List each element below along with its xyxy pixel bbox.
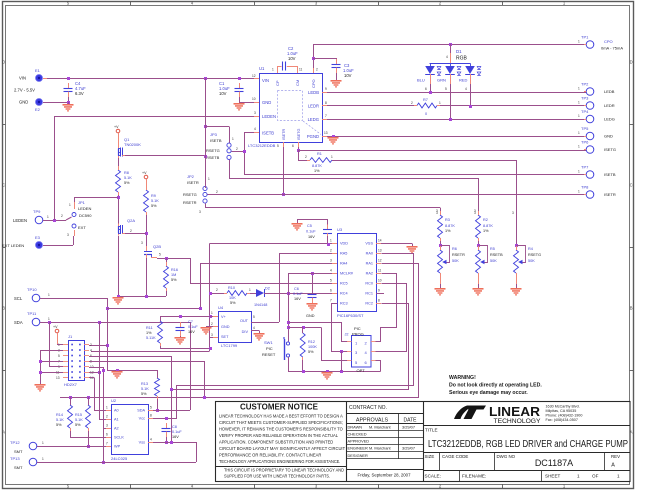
wire: [74, 197, 76, 202]
pin stub U1 LEDEN: [254, 116, 259, 118]
svg-text:4: 4: [465, 87, 467, 91]
svg-text:1: 1: [330, 239, 332, 243]
svg-text:R1: R1: [317, 152, 322, 156]
svg-text:SIZE: SIZE: [425, 454, 435, 459]
svg-text:1: 1: [578, 190, 580, 194]
pin stub U1 GND: [254, 102, 259, 104]
svg-text:RSETG: RSETG: [528, 253, 541, 257]
wire C3 to gnd: [336, 73, 338, 80]
junction pot R5: [477, 244, 480, 247]
svg-text:CHECKED: CHECKED: [348, 432, 367, 437]
svg-text:2: 2: [211, 322, 213, 326]
svg-text:2.7V - 5.5V: 2.7V - 5.5V: [14, 88, 35, 93]
svg-text:C: C: [2, 183, 5, 188]
svg-text:LEDEN: LEDEN: [13, 218, 27, 223]
wire R15 bottom: [88, 431, 90, 446]
pot wiper R6: [441, 246, 450, 263]
svg-text:RC2: RC2: [365, 302, 373, 306]
svg-text:+V: +V: [53, 325, 58, 329]
svg-text:TN0200K: TN0200K: [124, 142, 141, 147]
svg-text:5: 5: [445, 87, 447, 91]
ground at Q2A: [113, 297, 124, 305]
svg-text:1: 1: [577, 474, 580, 479]
junction wrap: [170, 388, 173, 391]
svg-text:1: 1: [42, 441, 44, 445]
svg-text:4: 4: [253, 326, 255, 330]
svg-text:5.11K: 5.11K: [146, 336, 156, 340]
svg-text:6: 6: [425, 87, 427, 91]
svg-text:SCLK: SCLK: [114, 436, 124, 440]
junction: [340, 370, 343, 373]
svg-text:SMT: SMT: [14, 465, 23, 470]
svg-text:RA1: RA1: [366, 262, 373, 266]
wire U4 GND: [206, 326, 213, 328]
svg-text:EXT: EXT: [78, 225, 86, 230]
svg-text:DIV: DIV: [242, 330, 249, 334]
test point TP5: [586, 132, 594, 140]
wire: [70, 397, 72, 405]
wire JP3 RSETB down: [229, 160, 231, 178]
wire down to R2: [478, 178, 480, 215]
wire J1 pin10 row: [89, 367, 103, 369]
wire Q1 gate to rail: [125, 155, 205, 157]
svg-text:3: 3: [254, 111, 256, 115]
svg-text:EXT LEDEN: EXT LEDEN: [2, 243, 24, 248]
svg-text:CM: CM: [295, 80, 300, 86]
svg-text:Fax: (408)434-0507: Fax: (408)434-0507: [546, 418, 578, 422]
ground at R5: [473, 288, 484, 296]
resistor R13: [155, 378, 160, 396]
wire Q1 source to R8: [118, 158, 120, 170]
wire ISETR net to TP8: [208, 194, 587, 196]
svg-text:4: 4: [330, 269, 332, 273]
svg-text:CAGE CODE: CAGE CODE: [442, 454, 468, 459]
wire JP3 pin1 down: [229, 127, 231, 144]
wire down to RC5 row: [190, 258, 192, 283]
svg-text:12: 12: [378, 259, 382, 263]
wire to SDA: [49, 322, 51, 367]
wire J1 pin8 row: [89, 361, 204, 363]
wire rail to J1 pin4: [91, 351, 210, 353]
svg-text:LEDR: LEDR: [308, 104, 319, 109]
svg-text:WP: WP: [114, 445, 121, 449]
wire VIN from E1: [43, 78, 68, 80]
JP1 pin3 stub: [74, 230, 76, 236]
svg-text:VERIFY PROPER AND RELIABLE OPE: VERIFY PROPER AND RELIABLE OPERATION IN …: [219, 433, 338, 439]
wire: [516, 241, 518, 250]
svg-text:2: 2: [316, 68, 318, 72]
test point TP9: [35, 216, 43, 224]
pin stub U4 SET: [213, 337, 218, 339]
junction VIN/C1: [238, 77, 241, 80]
svg-text:CPO: CPO: [604, 39, 613, 44]
junction C3: [312, 57, 315, 60]
wire pot lead: [478, 276, 480, 284]
svg-text:1: 1: [331, 155, 333, 159]
pot wiper R4: [517, 246, 526, 263]
svg-text:RESET: RESET: [262, 352, 276, 357]
svg-text:E1: E1: [35, 68, 41, 73]
svg-text:SCALE:: SCALE:: [425, 474, 441, 479]
wire pullup row: [60, 397, 204, 399]
wire to ground: [40, 350, 42, 384]
svg-text:ISETG: ISETG: [297, 129, 301, 140]
svg-text:ISETB: ISETB: [604, 172, 616, 177]
svg-text:5.1K: 5.1K: [124, 176, 132, 180]
wire: [88, 397, 90, 405]
D1 esd protection glyph: [477, 67, 481, 70]
junction R14: [69, 396, 72, 399]
junction RA4/SCL row: [199, 307, 202, 310]
junction PGND ground: [332, 135, 335, 138]
wire J1 pin6 row: [89, 356, 171, 358]
wire rail to R10: [210, 293, 225, 295]
svg-text:1: 1: [578, 101, 580, 105]
svg-text:1N4148: 1N4148: [254, 303, 267, 307]
svg-text:5: 5: [150, 406, 152, 410]
svg-text:6: 6: [292, 144, 294, 148]
svg-text:B: B: [630, 306, 633, 311]
potentiometer R6: [438, 250, 443, 273]
wire R11 top: [160, 316, 162, 321]
wire JP2 RSETR down: [205, 204, 207, 208]
svg-text:OPT: OPT: [357, 368, 366, 373]
junction SW1: [287, 326, 290, 329]
wire Q2A source down: [118, 236, 120, 296]
svg-text:APPROVED: APPROVED: [348, 439, 370, 444]
svg-text:GND: GND: [221, 325, 230, 329]
svg-text:R12: R12: [308, 340, 315, 344]
svg-text:R9: R9: [151, 194, 156, 198]
svg-text:U4: U4: [218, 305, 224, 310]
svg-text:JP3: JP3: [210, 132, 218, 137]
wire vertical to R14 row: [204, 361, 206, 397]
capacitor C5: [327, 225, 329, 230]
svg-text:LEDB: LEDB: [308, 90, 319, 95]
svg-text:1: 1: [48, 293, 50, 297]
test point TP4: [586, 115, 594, 123]
wire RA4 row: [200, 263, 332, 265]
ground at C7: [175, 337, 186, 345]
wire: [57, 344, 63, 346]
wire: [259, 331, 261, 334]
svg-text:RC4: RC4: [340, 292, 348, 296]
svg-text:1: 1: [232, 137, 234, 141]
svg-text:ISETG: ISETG: [604, 147, 616, 152]
wire R16 top: [166, 258, 168, 266]
svg-text:5.1K: 5.1K: [75, 418, 83, 422]
svg-text:10: 10: [252, 97, 256, 101]
resistor R10: [227, 291, 247, 296]
wire A1: [99, 419, 106, 421]
pin stub U1 VIN: [254, 78, 259, 80]
junction R15/WP: [87, 445, 90, 448]
svg-text:R11: R11: [146, 326, 153, 330]
svg-text:OUT: OUT: [240, 319, 249, 323]
wire ISETB to U1: [244, 132, 259, 134]
svg-text:50K: 50K: [452, 259, 459, 263]
wire LEDEN vertical: [54, 116, 56, 220]
capacitor C2: [282, 62, 284, 71]
wire R14 bottom: [70, 431, 72, 437]
svg-text:RA2: RA2: [366, 272, 373, 276]
wire MCLR vertical: [288, 273, 290, 342]
svg-text:SW1: SW1: [264, 340, 273, 345]
wire to TP13 row: [196, 442, 198, 462]
svg-text:SDA: SDA: [14, 320, 23, 325]
wire RA0 wrap to Vcc: [154, 254, 414, 419]
wire C3 branch: [313, 58, 336, 60]
svg-text:0mA - 75mA: 0mA - 75mA: [601, 46, 623, 51]
pin stub TP2: [584, 91, 586, 93]
resistor R16: [164, 266, 169, 288]
svg-text:1%: 1%: [146, 331, 152, 335]
junction TP13 row: [102, 461, 105, 464]
ground at C1: [234, 103, 245, 111]
ground at SW row: [322, 372, 333, 380]
svg-text:CUSTOMER NOTICE: CUSTOMER NOTICE: [240, 403, 318, 412]
wire RC0 to J2 pin4: [376, 284, 407, 352]
transistor Q1 TN0200K: [118, 146, 120, 149]
svg-text:RC3: RC3: [340, 302, 348, 306]
resistor R1: [310, 158, 332, 163]
pin stub TP8: [584, 194, 586, 196]
wire VDD row: [210, 243, 333, 245]
svg-text:1: 1: [578, 40, 580, 44]
svg-text:TP5: TP5: [581, 126, 589, 131]
svg-text:2: 2: [216, 288, 218, 292]
wire to A2 and TP13 row: [103, 367, 105, 462]
pin stub TP6: [584, 149, 586, 151]
connector J1 HD2X7 box: [69, 341, 85, 381]
+V at R9: [144, 175, 148, 179]
test point TP8: [586, 191, 594, 199]
svg-text:4: 4: [254, 127, 256, 131]
junction: [302, 370, 305, 373]
svg-text:9: 9: [378, 289, 380, 293]
eeprom U2 24LC025 box: [112, 405, 149, 455]
svg-text:6: 6: [330, 289, 332, 293]
svg-text:1: 1: [578, 87, 580, 91]
wire to A0: [94, 378, 96, 411]
wire +V to J1 pin1: [57, 333, 59, 345]
wire CPO up: [313, 44, 315, 73]
svg-text:5%: 5%: [141, 392, 147, 396]
wire ISETG down: [298, 142, 300, 150]
test point TP12: [29, 442, 37, 450]
junction R15: [87, 396, 90, 399]
turret E2 (GND): [36, 99, 43, 106]
svg-text:1M: 1M: [171, 273, 176, 277]
junction SCL row: [106, 307, 109, 310]
junction R13/SDA: [156, 409, 159, 412]
svg-text:PERFORMANCE OR RELIABILITY. C: PERFORMANCE OR RELIABILITY. CONTACT LINE…: [219, 453, 322, 459]
wire J1 pin2 row: [89, 345, 107, 347]
test point TP2: [586, 88, 594, 96]
junction SDA/J1: [48, 321, 51, 324]
svg-text:SUPPLIED FOR USE WITH LINEAR T: SUPPLIED FOR USE WITH LINEAR TECHNOLOGY …: [224, 474, 330, 480]
svg-text:0.1uF: 0.1uF: [306, 230, 316, 234]
svg-text:Q2B: Q2B: [153, 244, 161, 249]
svg-text:TP13: TP13: [10, 456, 20, 461]
svg-text:TITLE: TITLE: [425, 428, 438, 433]
scale row: [423, 470, 630, 472]
wire LEDR net left: [322, 105, 414, 107]
transistor Q2A: [118, 224, 120, 227]
svg-text:13: 13: [378, 249, 382, 253]
pot wiper R5: [479, 246, 488, 263]
wire +V to Q1 drain: [118, 133, 120, 146]
svg-text:3: 3: [106, 424, 108, 428]
wire: [277, 66, 282, 68]
pin stub TP5: [584, 136, 586, 138]
svg-text:1: 1: [272, 68, 274, 72]
svg-text:Do not look directly at operat: Do not look directly at operating LED.: [449, 383, 542, 389]
pin stub TP9: [43, 220, 48, 222]
svg-text:RC1: RC1: [365, 292, 373, 296]
svg-text:10: 10: [378, 279, 382, 283]
wire: [287, 66, 297, 68]
wire CP up: [277, 66, 279, 73]
wire: [327, 236, 329, 244]
junction C5: [327, 243, 330, 246]
wire PGND net to TP5: [322, 136, 586, 138]
wire BLU cathode to LEDB: [430, 84, 432, 92]
svg-text:1: 1: [578, 145, 580, 149]
wire A2: [103, 428, 106, 430]
svg-text:3: 3: [474, 211, 476, 215]
svg-text:E2: E2: [35, 107, 41, 112]
svg-text:ISETR: ISETR: [187, 180, 199, 185]
U1 pin stubs: [254, 78, 259, 80]
svg-text:3: 3: [330, 259, 332, 263]
svg-text:TP4: TP4: [581, 109, 589, 114]
svg-text:5: 5: [159, 253, 161, 257]
wire: [73, 236, 75, 245]
svg-text:GND: GND: [262, 100, 271, 105]
svg-text:CONTRACT NO.: CONTRACT NO.: [349, 405, 387, 411]
wire RC2 wrap: [172, 304, 409, 390]
svg-text:7: 7: [106, 442, 108, 446]
wire: [440, 241, 442, 250]
svg-text:LEDEN: LEDEN: [78, 206, 91, 211]
wire: [336, 58, 338, 62]
wire R9 down: [146, 215, 148, 248]
wire to A1: [99, 322, 101, 419]
svg-text:5%: 5%: [124, 181, 130, 185]
svg-text:DRAWN: DRAWN: [348, 425, 363, 430]
svg-text:8.87K: 8.87K: [312, 164, 322, 168]
svg-text:3: 3: [211, 333, 213, 337]
ground at J1: [35, 384, 46, 392]
svg-text:LEDB: LEDB: [604, 89, 615, 94]
svg-text:3: 3: [436, 211, 438, 215]
junction VIN rail / +V rail: [204, 77, 207, 80]
svg-text:R3: R3: [445, 218, 450, 222]
svg-text:CIRCUIT BOARD LAYOUT MAY SIGNI: CIRCUIT BOARD LAYOUT MAY SIGNIFICANTLY A…: [219, 446, 345, 452]
svg-text:Q2A: Q2A: [127, 218, 135, 223]
wire J1 pin3 row: [40, 350, 63, 352]
oscillator U4 LTC1799 box: [219, 312, 252, 343]
wire Q2B drain to RC5: [157, 258, 190, 260]
wire SCL row: [107, 308, 200, 310]
svg-text:16V: 16V: [188, 330, 195, 334]
svg-text:Vss: Vss: [139, 441, 145, 445]
svg-text:LINEAR: LINEAR: [489, 405, 540, 419]
junction wrap/Vss: [170, 441, 173, 444]
svg-text:2: 2: [216, 190, 218, 194]
svg-text:E3: E3: [35, 235, 41, 240]
wire SDA row: [153, 410, 190, 412]
resistor R12: [300, 333, 305, 357]
svg-text:GND: GND: [19, 100, 28, 105]
svg-text:8.87K: 8.87K: [445, 224, 455, 228]
svg-text:LEDG: LEDG: [604, 117, 615, 122]
wire A0: [94, 410, 106, 412]
junction pot R6: [439, 244, 442, 247]
wire vertical to Vss: [171, 356, 173, 442]
wire E3 to JP1: [43, 245, 73, 247]
svg-text:SDA: SDA: [137, 409, 145, 413]
wire to R13 top: [107, 370, 157, 372]
svg-text:8.87K: 8.87K: [483, 224, 493, 228]
svg-text:3: 3: [512, 211, 514, 215]
svg-text:PIC: PIC: [354, 326, 361, 331]
svg-text:LEDR: LEDR: [604, 103, 615, 108]
svg-text:7: 7: [330, 299, 332, 303]
svg-text:JP2: JP2: [187, 174, 195, 179]
svg-text:1%: 1%: [445, 229, 451, 233]
svg-text:TP2: TP2: [581, 82, 589, 87]
svg-text:TP8: TP8: [581, 185, 589, 190]
wire: [166, 437, 168, 442]
wire VIN vertical to JP2: [205, 78, 207, 188]
wire CM up: [297, 66, 299, 73]
wire pot to gnd: [478, 284, 480, 288]
svg-text:2: 2: [330, 249, 332, 253]
svg-text:GRN: GRN: [437, 78, 446, 83]
D1 esd protection glyph: [457, 67, 461, 70]
pin stub U4 GND: [213, 326, 218, 328]
svg-text:TP7: TP7: [581, 165, 589, 170]
svg-text:TP6: TP6: [581, 140, 589, 145]
svg-text:LTC3212EDDB, RGB LED DRIVER an: LTC3212EDDB, RGB LED DRIVER and CHARGE P…: [428, 439, 628, 450]
wire RSETG down to R4: [516, 160, 518, 250]
wire SCL vertical: [107, 298, 109, 370]
wire R16 bottom to gnd: [118, 296, 166, 298]
svg-text:DC1187A: DC1187A: [535, 458, 573, 468]
resistor R15: [86, 405, 91, 428]
junction gate/JP2 feed: [204, 155, 207, 158]
svg-text:24LC025: 24LC025: [111, 456, 128, 461]
title cell: [423, 425, 630, 427]
wire pot lead: [440, 276, 442, 284]
svg-text:SMT: SMT: [14, 449, 23, 454]
svg-text:LTC1799: LTC1799: [221, 343, 238, 348]
switch SW1 PIC RESET: [286, 342, 289, 345]
junction: [98, 371, 101, 374]
wire R13 bottom: [157, 399, 159, 410]
svg-text:GND: GND: [306, 314, 315, 318]
test point TP11: [32, 318, 40, 326]
wire V+ row: [160, 316, 213, 318]
svg-text:Friday, September 28, 2007: Friday, September 28, 2007: [358, 473, 412, 478]
pin stub TP3: [584, 105, 586, 107]
svg-text:PROG: PROG: [352, 332, 364, 337]
D1 anode bus: [430, 63, 471, 65]
svg-text:THIS CIRCUIT IS PROPRIETARY TO: THIS CIRCUIT IS PROPRIETARY TO LINEAR TE…: [224, 467, 344, 473]
svg-text:1%: 1%: [314, 169, 320, 173]
